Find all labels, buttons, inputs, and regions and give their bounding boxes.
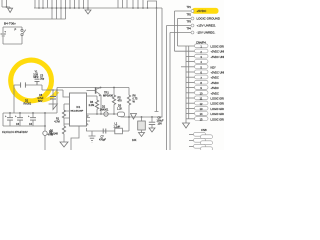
wire lower rail y20 bbox=[0, 18, 66, 20]
svg-text:LOGIC GROUND: LOGIC GROUND bbox=[211, 112, 225, 116]
wire bus long stub x61 bbox=[60, 0, 62, 19]
svg-text:IC1: IC1 bbox=[77, 106, 81, 109]
node bus junctions right bbox=[132, 7, 144, 9]
svg-text:10V: 10V bbox=[158, 122, 163, 125]
node top-left junction bbox=[6, 6, 8, 8]
svg-text:TP4: TP4 bbox=[187, 28, 192, 31]
wire crystal left down bbox=[13, 85, 15, 113]
capacitor C8 4.7uF bbox=[52, 90, 54, 96]
svg-text:4.7M: 4.7M bbox=[54, 121, 60, 124]
wire bus stub x133 bbox=[132, 0, 134, 8]
svg-text:MC145O26P: MC145O26P bbox=[71, 111, 84, 113]
svg-text:KEY: KEY bbox=[211, 65, 216, 69]
svg-text:1.2K: 1.2K bbox=[117, 108, 122, 111]
ground under C9 bbox=[149, 128, 155, 132]
wire top-left stub A bbox=[1, 0, 3, 7]
wire bus stub x39 bbox=[38, 0, 40, 8]
wire y90 bbox=[42, 89, 63, 91]
component R7 box bbox=[141, 117, 143, 121]
svg-text:+15V UNREG.: +15V UNREG. bbox=[197, 24, 217, 28]
svg-text:-15V UNREG.: -15V UNREG. bbox=[197, 31, 216, 35]
wire left edge vertical bbox=[2, 113, 4, 126]
wire crystal right drop bbox=[41, 85, 43, 90]
svg-text:30p: 30p bbox=[40, 77, 45, 80]
wire connector bus vertical 1 bbox=[185, 46, 187, 122]
svg-text:C2,C3,C4 470uF/16V: C2,C3,C4 470uF/16V bbox=[2, 130, 28, 134]
node y90 junctions bbox=[52, 89, 58, 91]
transistor TR1 base wire bbox=[87, 90, 96, 92]
capacitor C9 bbox=[151, 117, 153, 122]
wire bus stub x122.5 bbox=[122, 0, 124, 8]
diode D2 circle bbox=[104, 112, 108, 116]
wire connector bus vertical 2 bbox=[188, 46, 190, 119]
test point TP1 bbox=[175, 6, 208, 13]
wire collector rail y87.5 bbox=[57, 87, 129, 89]
wire bus stub x70 bbox=[69, 0, 71, 8]
diode D1 circle bbox=[43, 131, 47, 135]
svg-text:+5VDC: +5VDC bbox=[197, 9, 208, 13]
ground earth at x92 bbox=[89, 136, 96, 143]
component L1 box bbox=[115, 128, 123, 134]
ground under C8 bbox=[49, 104, 58, 110]
wire bus stub x35 bbox=[34, 0, 36, 8]
IC left pin wires bbox=[64, 104, 70, 124]
wire bus stub x118 bbox=[117, 0, 119, 8]
svg-text:LOGIC GROUND: LOGIC GROUND bbox=[211, 117, 225, 121]
wire long vertical x162 bbox=[161, 8, 163, 118]
IC right pin stubs bbox=[87, 118, 91, 122]
wire bus stub x127 bbox=[126, 0, 128, 8]
wire bus loop bbox=[148, 1, 157, 8]
svg-text:LOGIC GROUND: LOGIC GROUND bbox=[211, 102, 225, 106]
svg-text:+5VDC UNREG: +5VDC UNREG bbox=[211, 50, 225, 54]
wire lower rail y126 left bbox=[3, 125, 45, 127]
svg-text:B4-T06v: B4-T06v bbox=[4, 22, 16, 26]
component D3 box bbox=[118, 112, 125, 117]
svg-text:+5VDC: +5VDC bbox=[211, 91, 220, 95]
test point TP3 bbox=[167, 21, 217, 28]
transistor TR1 bbox=[96, 87, 101, 96]
test point TP4 bbox=[170, 28, 216, 35]
svg-text:1N4148: 1N4148 bbox=[49, 132, 58, 135]
ground under R2 bbox=[60, 142, 68, 147]
svg-text:MPSA06: MPSA06 bbox=[103, 95, 113, 98]
svg-text:10K: 10K bbox=[132, 139, 137, 142]
svg-text:2.2M: 2.2M bbox=[89, 104, 95, 107]
svg-text:470: 470 bbox=[118, 99, 123, 102]
ground under R7 bbox=[139, 133, 145, 137]
connector CN4 pin rows bbox=[175, 44, 231, 122]
wire x63 to IC pin bbox=[63, 90, 70, 97]
svg-text:1N4001: 1N4001 bbox=[100, 108, 109, 111]
wire bus long stub x65.5 bbox=[65, 0, 67, 19]
wire gnd stub x92 bbox=[91, 131, 93, 136]
resistor R3 2.2M bbox=[87, 96, 98, 100]
svg-text:P: P bbox=[15, 28, 17, 32]
svg-text:470pF: 470pF bbox=[99, 139, 107, 142]
capacitor C7 on bottom row bbox=[103, 129, 106, 134]
svg-text:TP3: TP3 bbox=[187, 21, 192, 24]
IC U1 box bbox=[70, 93, 87, 126]
wire bus stub x143 bbox=[142, 0, 144, 8]
capacitor C5 on wire bbox=[14, 84, 42, 86]
wire bus stub x47.5 bbox=[47, 0, 49, 8]
ground connector bus bbox=[183, 122, 190, 128]
wire power rail y113 left bbox=[3, 112, 57, 114]
svg-text:TP1: TP1 bbox=[187, 6, 192, 9]
svg-text:LOGIC GROUND: LOGIC GROUND bbox=[211, 107, 225, 111]
wire collector up bbox=[100, 87, 102, 89]
svg-text:50V: 50V bbox=[38, 100, 43, 103]
wire TP2 routing bbox=[177, 19, 179, 47]
wire top bus bbox=[34, 7, 162, 9]
wire x57 vertical bbox=[56, 88, 58, 114]
wire bus long stub x56.5 bbox=[56, 0, 58, 19]
capacitor C4 bbox=[28, 113, 36, 126]
capacitor C3 bbox=[15, 113, 23, 126]
svg-text:+5VDC UNREG: +5VDC UNREG bbox=[211, 55, 225, 59]
wire bus stub x83.5 bbox=[83, 0, 85, 8]
wire bus stub x43 bbox=[42, 0, 44, 8]
ground on bus at x88 bbox=[85, 8, 91, 14]
svg-text:CN8: CN8 bbox=[201, 128, 207, 132]
node rail junctions bbox=[100, 87, 115, 89]
wire TP3 routing bbox=[166, 26, 168, 151]
capacitor C2 bbox=[5, 113, 13, 126]
wire TP1 routing bbox=[174, 11, 176, 51]
crystal Y1 symbol bbox=[35, 79, 40, 85]
svg-text:MHz: MHz bbox=[33, 76, 39, 79]
wire bus stub x88 bbox=[87, 0, 89, 8]
wire main row y114 bbox=[87, 114, 163, 117]
svg-text:+5VDC: +5VDC bbox=[211, 76, 220, 80]
svg-text:+5VDC: +5VDC bbox=[211, 86, 220, 90]
wire TP4 routing bbox=[169, 33, 171, 151]
wire bus stub x74.5 bbox=[74, 0, 76, 8]
resistor R6 0.75W bbox=[128, 88, 130, 96]
ground on row at x137 bbox=[131, 114, 137, 120]
wire D1 vertical bbox=[44, 113, 46, 150]
ground top-left bbox=[8, 7, 13, 13]
wire bus long stub x52 bbox=[51, 0, 53, 19]
wire emitter down bbox=[100, 95, 102, 114]
wire long vertical x156.5 bbox=[155, 8, 159, 112]
svg-text:LOGIC GROUND: LOGIC GROUND bbox=[211, 45, 225, 49]
wire bus stub x138 bbox=[137, 0, 139, 8]
annotation: yellow highlight bar on +5VDC bbox=[192, 8, 219, 14]
resistor R5 470 bbox=[113, 88, 115, 96]
node row junctions bbox=[96, 113, 153, 118]
svg-text:+: + bbox=[4, 29, 6, 33]
svg-text:+5VDC UNREG: +5VDC UNREG bbox=[211, 71, 225, 75]
svg-text:LOGIC GROUND: LOGIC GROUND bbox=[197, 17, 221, 21]
connector CN8 rows bbox=[189, 132, 213, 150]
node bus junctions left bbox=[38, 7, 89, 9]
wire top-left horizontal bbox=[2, 6, 10, 8]
wire IC bottom row y131 bbox=[87, 128, 130, 131]
svg-text:+5VDC: +5VDC bbox=[211, 81, 220, 85]
svg-text:TP2: TP2 bbox=[187, 14, 192, 17]
battery B1 plates bbox=[1, 34, 6, 36]
resistor chain R1 R2 4.7M bbox=[63, 104, 65, 110]
svg-text:LOGIC GROUND: LOGIC GROUND bbox=[211, 97, 225, 101]
test point TP2 bbox=[178, 14, 221, 21]
switch S1 bbox=[21, 29, 26, 35]
battery B1 box wires bbox=[3, 27, 22, 44]
node loop junctions bbox=[147, 7, 158, 9]
svg-text:1.2uH: 1.2uH bbox=[114, 125, 121, 128]
wire top-left stub B bbox=[6, 0, 8, 7]
annotation: yellow circle tail overlap bbox=[42, 92, 58, 101]
node rail junctions bbox=[9, 112, 46, 127]
annotation: yellow highlighter circle bbox=[7, 57, 54, 104]
wire bus stub x79 bbox=[78, 0, 80, 8]
IC bottom pin step wire bbox=[71, 126, 79, 150]
svg-text:RA301: RA301 bbox=[24, 102, 32, 105]
